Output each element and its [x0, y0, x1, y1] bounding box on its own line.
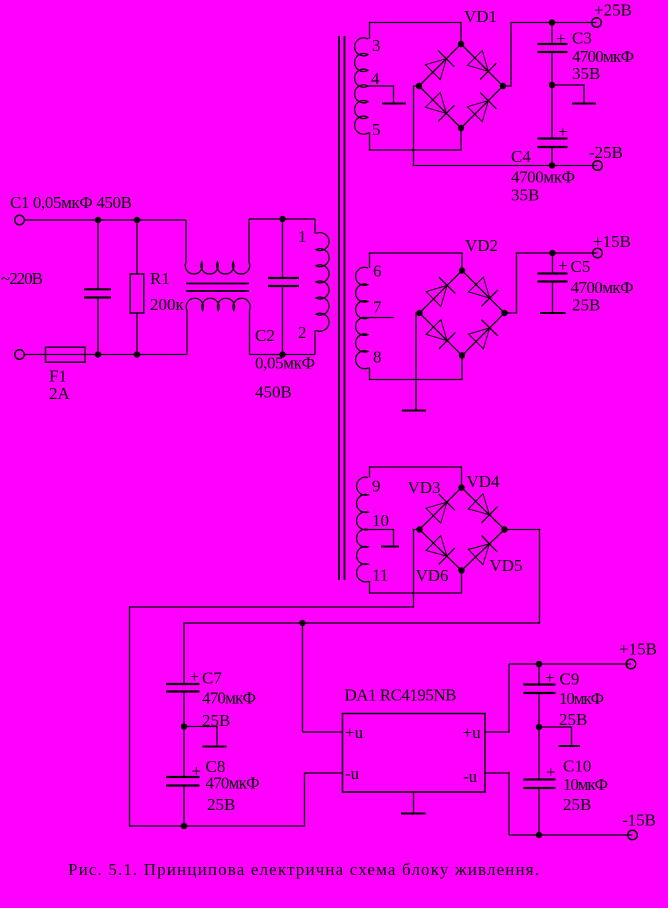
capacitor C5	[538, 253, 568, 312]
inductor secondary winding 3-4-5	[355, 38, 368, 134]
junction VD1 top	[458, 41, 464, 47]
wire -u output	[485, 773, 509, 835]
svg-text:10: 10	[372, 511, 389, 530]
diode bridge VD2 lower-right	[469, 320, 498, 349]
svg-text:-u: -u	[345, 764, 360, 783]
label +15V out	[619, 640, 657, 659]
node terminal +25V	[592, 18, 602, 28]
label pin 3	[372, 36, 381, 55]
label C9 plus	[545, 668, 555, 687]
junction C2 top	[279, 216, 285, 222]
svg-text:25В: 25В	[563, 795, 591, 814]
label pin -u left	[345, 764, 360, 783]
node terminal +15V out	[626, 659, 636, 669]
junction bridge3 top	[458, 484, 464, 490]
svg-text:7: 7	[373, 298, 382, 317]
junction bottom rail at C1	[95, 351, 101, 357]
label C5 voltage	[572, 296, 600, 315]
ground C5 bar	[540, 312, 566, 314]
svg-text:+u: +u	[345, 723, 364, 742]
label VD6	[416, 566, 449, 585]
label C8 plus	[192, 762, 202, 781]
label figure caption	[68, 860, 539, 879]
wire winding1 top lead	[370, 23, 462, 45]
label C7 plus	[190, 667, 200, 686]
junction C3 C4 mid	[549, 82, 555, 88]
wire VD1 plus output	[503, 23, 597, 87]
capacitor C4	[538, 85, 568, 166]
wire +15 rail	[509, 663, 631, 665]
label C8	[206, 757, 226, 776]
junction C4 bottom	[549, 162, 555, 168]
svg-text:~220В: ~220В	[1, 269, 43, 288]
junction C9 C10 mid	[536, 724, 542, 730]
label R1	[150, 269, 170, 288]
wire choke top entry	[185, 220, 187, 262]
wire top rail input	[24, 219, 186, 221]
capacitor C10	[524, 727, 556, 835]
label C10 plus	[546, 763, 556, 782]
label pin 2	[298, 323, 307, 342]
svg-text:470мкФ: 470мкФ	[202, 689, 256, 708]
wire winding2 bottom lead	[368, 356, 462, 380]
label pin 6	[373, 262, 382, 281]
junction bridge3 bottom	[458, 567, 464, 573]
wire top rail to primary	[249, 218, 315, 220]
ground tap4 bar	[382, 103, 406, 105]
svg-text:VD3: VD3	[408, 478, 441, 497]
label F1	[49, 367, 67, 386]
ground tap10 bar	[381, 546, 399, 548]
svg-text:11: 11	[372, 566, 388, 585]
svg-text:VD4: VD4	[467, 472, 501, 491]
label C8 voltage	[207, 795, 235, 814]
wire bottom rail input	[24, 354, 186, 356]
svg-text:-25В: -25В	[589, 143, 623, 162]
diode bridge VD2 upper-left	[426, 277, 455, 306]
label C7 value	[202, 689, 256, 708]
transformer core	[339, 36, 345, 580]
label C3	[572, 29, 592, 48]
svg-text:VD6: VD6	[416, 566, 449, 585]
capacitor C7	[166, 684, 200, 727]
svg-text:C1 0,05мкФ 450В: C1 0,05мкФ 450В	[10, 193, 132, 212]
node terminal -25V	[593, 161, 603, 171]
wire tap pin7 stub	[366, 317, 394, 319]
label C4 value	[511, 168, 575, 187]
label C5	[571, 257, 591, 276]
wire VD3-6 frame	[420, 488, 505, 571]
choke core lines	[186, 284, 249, 292]
wire +u output	[485, 664, 509, 732]
label C9 value	[559, 689, 604, 708]
op-amp regulator DA1 box	[343, 714, 486, 793]
label pin 10	[372, 511, 389, 530]
junction VD1 right	[500, 83, 506, 89]
ground DA1	[401, 792, 426, 814]
junction bottom rail at R1	[134, 351, 140, 357]
ground VD2 bar	[402, 410, 426, 412]
label F1 value 2A	[49, 384, 71, 403]
junction plus-u tie	[299, 620, 305, 626]
junction VD2 right	[501, 310, 507, 316]
inductor choke top winding	[185, 262, 249, 274]
label R1 value 200k	[150, 295, 185, 314]
label C7 voltage	[202, 711, 230, 730]
wire VD2 minus to ground	[416, 313, 420, 410]
svg-text:4700мкФ: 4700мкФ	[511, 168, 575, 187]
label C9 voltage	[559, 710, 587, 729]
svg-text:35В: 35В	[572, 64, 600, 83]
label C2 voltage	[255, 383, 292, 402]
label +15V rect	[593, 232, 631, 251]
wire bottom rail to primary	[250, 354, 316, 356]
svg-text:8: 8	[373, 348, 382, 367]
junction top rail at R1	[134, 217, 140, 223]
svg-text:9: 9	[372, 477, 381, 496]
wire VD1 frame	[419, 44, 503, 128]
junction bridge3 right	[501, 526, 507, 532]
diode bridge VD1 lower-left	[425, 92, 454, 121]
diode bridge VD1 upper-right	[467, 50, 496, 79]
inductor choke bottom winding	[186, 298, 250, 310]
wire winding3 top lead	[370, 467, 462, 488]
svg-text:450В: 450В	[255, 383, 292, 402]
label C9	[560, 670, 580, 689]
svg-text:F1: F1	[49, 367, 67, 386]
diode bridge VD1 lower-right	[467, 93, 496, 122]
wire bridge3 minus rail	[130, 530, 420, 827]
label pin -u right	[463, 767, 478, 786]
label VD4	[467, 472, 501, 491]
svg-text:VD2: VD2	[465, 236, 498, 255]
junction C5 top	[549, 250, 555, 256]
junction VD2 left	[416, 310, 422, 316]
wire C9C10 mid to ground	[539, 727, 572, 746]
wire -u input	[305, 772, 343, 774]
svg-text:2: 2	[298, 323, 307, 342]
wire VD2 plus output	[505, 253, 598, 313]
svg-text:Рис. 5.1. Принципова електричн: Рис. 5.1. Принципова електрична схема бл…	[68, 860, 539, 879]
wire plus-u pin lead	[302, 623, 304, 732]
svg-text:6: 6	[373, 262, 382, 281]
label ~220V	[1, 269, 43, 288]
label pin +u left	[345, 723, 364, 742]
junction C7 C8 mid	[181, 723, 187, 729]
svg-text:2А: 2А	[49, 384, 71, 403]
junction C3 top	[549, 19, 555, 25]
label DA1 RC4195NB	[345, 686, 457, 705]
svg-text:470мкФ: 470мкФ	[206, 774, 260, 793]
label C10 value	[563, 775, 608, 794]
capacitor C8	[166, 727, 200, 827]
wire VD1 minus output	[414, 86, 598, 166]
svg-text:25В: 25В	[559, 710, 587, 729]
wire bridge3 plus rail	[184, 530, 540, 685]
svg-text:5: 5	[372, 120, 381, 139]
svg-text:C4: C4	[511, 147, 531, 166]
label C3 plus	[556, 29, 566, 48]
label C3 value	[572, 47, 634, 66]
svg-text:R1: R1	[150, 269, 170, 288]
label pin +u right	[463, 723, 482, 742]
junction VD1 left	[416, 83, 422, 89]
svg-text:DA1 RC4195NB: DA1 RC4195NB	[345, 686, 457, 705]
label pin 4	[371, 69, 380, 88]
label +25V	[594, 1, 632, 20]
ground C7C8 bar	[203, 746, 227, 748]
wire winding1 bottom lead	[368, 128, 461, 150]
ground mid bar	[572, 103, 596, 105]
diode bridge VD2 lower-left	[426, 320, 455, 349]
label C1 value	[10, 193, 132, 212]
label VD1	[464, 7, 497, 26]
label pin 7	[373, 298, 382, 317]
label C7	[202, 669, 222, 688]
junction C2 bottom	[279, 351, 285, 357]
wire center tap pin10	[366, 530, 394, 547]
junction C8 bottom	[181, 823, 187, 829]
label pin 11	[372, 566, 388, 585]
svg-text:3: 3	[372, 36, 381, 55]
wire choke top exit	[248, 219, 250, 262]
svg-text:+15В: +15В	[593, 232, 631, 251]
diode bridge VD1 upper-left	[425, 51, 454, 80]
label C4 voltage	[511, 186, 539, 205]
diode VD5	[468, 536, 497, 565]
label C10 voltage	[563, 795, 591, 814]
label C5 plus	[558, 256, 568, 275]
svg-text:25В: 25В	[572, 296, 600, 315]
fuse F1	[46, 347, 86, 362]
node input terminal bottom	[15, 350, 25, 360]
label VD3	[408, 478, 441, 497]
node terminal -15V out	[628, 830, 638, 840]
svg-text:+15В: +15В	[619, 640, 657, 659]
inductor secondary winding 9-10-11	[357, 477, 368, 582]
wire winding2 top lead	[370, 253, 463, 271]
svg-text:C10: C10	[563, 757, 591, 776]
label C2	[255, 326, 275, 345]
svg-text:C5: C5	[571, 257, 591, 276]
svg-text:10мкФ: 10мкФ	[563, 775, 608, 794]
label C8 value	[206, 774, 260, 793]
wire mid to ground	[552, 85, 584, 103]
svg-text:+25В: +25В	[594, 1, 632, 20]
wire primary bottom lead	[314, 330, 316, 354]
svg-text:-15В: -15В	[622, 811, 656, 830]
svg-text:+: +	[558, 256, 568, 275]
svg-text:C9: C9	[560, 670, 580, 689]
node terminal +15V rect	[593, 248, 603, 258]
svg-text:10мкФ: 10мкФ	[559, 689, 604, 708]
svg-text:4: 4	[371, 69, 380, 88]
label pin 1	[298, 227, 307, 246]
diode VD6	[426, 536, 455, 565]
label C3 voltage	[572, 64, 600, 83]
svg-text:+: +	[558, 122, 568, 141]
diode VD3	[426, 494, 455, 523]
svg-text:VD5: VD5	[490, 556, 523, 575]
wire +u input	[303, 731, 343, 733]
capacitor C9	[524, 664, 556, 727]
junction top rail at C1	[95, 217, 101, 223]
junction VD2 bottom	[459, 352, 465, 358]
svg-text:+: +	[556, 29, 566, 48]
wire primary top lead	[314, 219, 316, 234]
wire winding3 bottom lead	[368, 571, 462, 594]
label pin 9	[372, 477, 381, 496]
junction VD2 top	[459, 267, 465, 273]
wire VD2 frame	[420, 271, 505, 356]
resistor R1	[130, 220, 144, 355]
capacitor C2	[268, 219, 299, 355]
svg-text:25В: 25В	[207, 795, 235, 814]
junction bridge3 left	[416, 526, 422, 532]
wire center tap pin4	[366, 86, 394, 103]
svg-text:-u: -u	[463, 767, 478, 786]
diode VD4	[468, 494, 497, 523]
label -25V	[589, 143, 623, 162]
label C2 value	[255, 354, 315, 373]
label pin 8	[373, 348, 382, 367]
svg-text:35В: 35В	[511, 186, 539, 205]
label C4	[511, 147, 531, 166]
node input terminal top ~220V	[15, 215, 25, 225]
svg-text:200к: 200к	[150, 295, 185, 314]
svg-text:1: 1	[298, 227, 307, 246]
svg-text:4700мкФ: 4700мкФ	[571, 278, 634, 297]
label C4 plus	[558, 122, 568, 141]
capacitor C3	[538, 23, 568, 86]
svg-text:VD1: VD1	[464, 7, 497, 26]
wire choke bottom exit	[249, 311, 251, 355]
inductor transformer primary winding	[316, 233, 329, 332]
inductor secondary winding 6-7-8	[356, 267, 368, 368]
wire -15 rail	[509, 834, 633, 836]
label pin 5	[372, 120, 381, 139]
svg-text:C2: C2	[255, 326, 275, 345]
label C10	[563, 757, 591, 776]
label C5 value	[571, 278, 634, 297]
junction C9 top	[536, 661, 542, 667]
label VD5	[490, 556, 523, 575]
svg-text:+u: +u	[463, 723, 482, 742]
svg-text:C7: C7	[202, 669, 222, 688]
diode bridge VD2 upper-right	[469, 277, 498, 306]
ground C9C10 bar	[559, 745, 581, 747]
junction C10 bottom	[536, 832, 542, 838]
label VD2	[465, 236, 498, 255]
wire choke bottom entry	[186, 311, 188, 355]
wire C7C8 mid to ground	[184, 727, 217, 747]
capacitor C1	[84, 220, 111, 355]
junction VD1 bottom	[458, 125, 464, 131]
svg-text:C3: C3	[572, 29, 592, 48]
label -15V out	[622, 811, 656, 830]
